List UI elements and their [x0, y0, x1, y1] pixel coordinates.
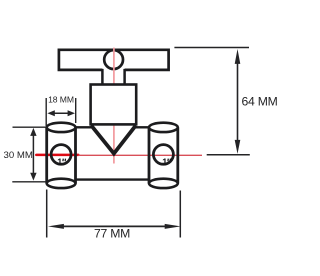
dim 18MM extension line right [75, 98, 77, 123]
dim 64MM extension line bottom [207, 154, 250, 156]
dim 77MM arrow left [48, 224, 64, 229]
left port cylinder [47, 123, 76, 188]
handle bar [59, 50, 169, 70]
dim 64MM line [237, 58, 239, 146]
dim 18MM extension line left [45, 98, 47, 126]
svg-text:30 MM: 30 MM [4, 150, 33, 161]
dim 77MM extension line left [46, 190, 48, 238]
right port bore ellipse [153, 145, 173, 165]
seat V [91, 125, 136, 153]
svg-text:1: 1 [57, 157, 62, 167]
bonnet [91, 85, 137, 125]
svg-text:1: 1 [162, 157, 167, 167]
body top edge left [75, 126, 91, 128]
dim 30MM extension line top [13, 126, 48, 128]
left port bore ellipse [51, 145, 71, 165]
horizontal centerline thick (red) [36, 154, 78, 157]
right port size label 1 inch [162, 157, 170, 167]
dim 30MM extension line bottom [12, 181, 46, 183]
dim 64MM arrow bottom [235, 140, 241, 154]
dim 30MM arrow bottom [30, 173, 36, 181]
vertical centerline (red) [113, 48, 115, 164]
dim 77MM extension line right [179, 191, 181, 238]
dim 18MM arrow right [68, 110, 75, 116]
left port size label 1 inch [57, 157, 65, 167]
dim 30MM line [32, 133, 34, 176]
knob circle [104, 50, 123, 69]
svg-text:18 MM: 18 MM [48, 95, 74, 105]
horizontal centerline thin (red) [78, 154, 202, 156]
svg-text:77 MM: 77 MM [94, 227, 130, 241]
body top edge right [136, 126, 150, 128]
dim 77MM arrow right [165, 224, 181, 229]
svg-text:64 MM: 64 MM [242, 95, 278, 109]
dim 18MM arrow left [47, 110, 54, 116]
dim 64MM extension line top [174, 47, 249, 49]
stem neck [102, 69, 124, 85]
dim 64MM arrow top [235, 49, 241, 64]
body bottom edge [75, 178, 149, 180]
dim 30MM arrow top [30, 128, 36, 136]
dim 18MM line [52, 112, 70, 114]
dim 77MM line [58, 225, 170, 227]
right port cylinder [149, 123, 178, 188]
